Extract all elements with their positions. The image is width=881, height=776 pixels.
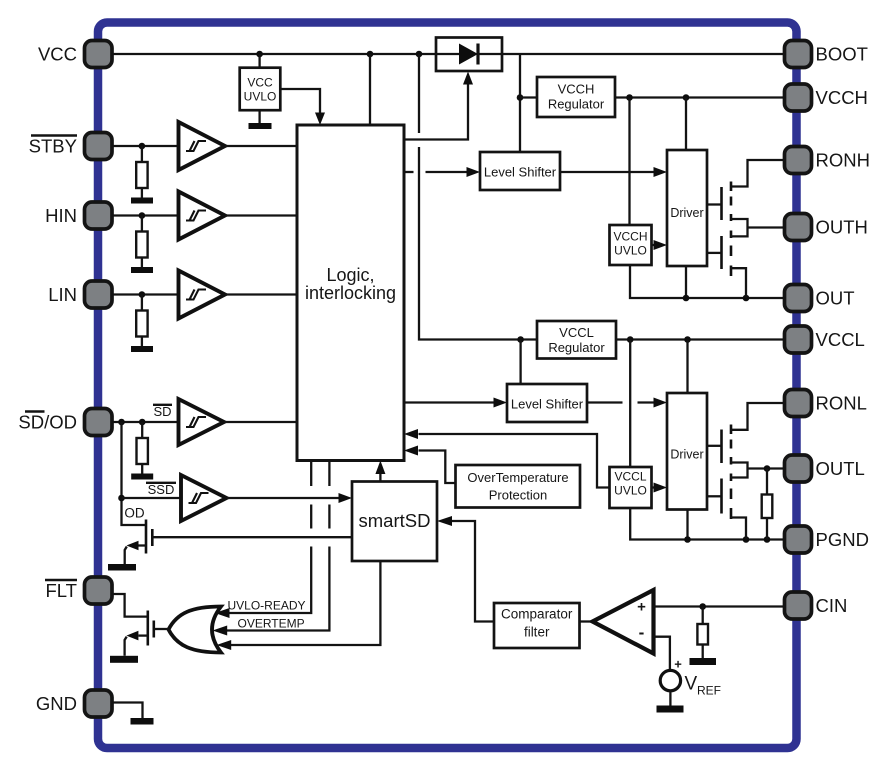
label SSD (active low): [146, 482, 176, 497]
node VCCH/driver tap: [683, 94, 690, 101]
svg-text:interlocking: interlocking: [305, 283, 396, 303]
svg-text:UVLO-READY: UVLO-READY: [228, 599, 306, 613]
wire logic OVERTEMP to OR gate (dashed hops, arrow): [213, 461, 330, 636]
label OVERTEMP: [238, 617, 305, 631]
wire VCC rail: [112, 53, 436, 55]
pin HIN: [45, 202, 112, 229]
wire VCCH UVLO to driver (arrow): [652, 240, 668, 250]
wire OUTL: [748, 467, 785, 469]
svg-text:VCC: VCC: [38, 44, 77, 65]
svg-text:PGND: PGND: [816, 529, 869, 550]
pin FLT (active low): [45, 577, 112, 604]
node LIN pulldown tap: [139, 291, 146, 298]
svg-text:VCCH: VCCH: [558, 82, 595, 97]
resistor HIN pulldown: [136, 216, 147, 268]
block Driver (high side): [667, 150, 707, 266]
node SD pulldown tap: [139, 419, 146, 426]
wire LIN buffer to logic: [225, 293, 297, 295]
svg-text:HIN: HIN: [45, 205, 77, 226]
wire smartSD to OD fet gate: [152, 536, 352, 538]
block VCCH UVLO: [610, 225, 652, 265]
node driver/PGND: [684, 536, 691, 543]
wire HIN input: [112, 214, 179, 216]
svg-text:VCCL: VCCL: [559, 325, 594, 340]
wire to VCCH regulator: [520, 96, 537, 98]
label SD (active low): [153, 404, 172, 419]
pin OUTH: [785, 214, 868, 241]
node STBY pulldown tap: [139, 143, 146, 150]
block smartSD: [352, 482, 437, 562]
svg-text:smartSD: smartSD: [359, 510, 431, 531]
svg-text:-: -: [639, 623, 645, 642]
block Driver (low side): [667, 393, 707, 510]
pin RONH: [785, 147, 870, 174]
schmitt buffer U4 (SD): [179, 399, 225, 445]
svg-text:Protection: Protection: [489, 488, 548, 503]
node fet-source/PGND: [743, 536, 750, 543]
wire logic UVLO-READY to OR gate (dashed hops, arrow): [215, 461, 311, 619]
svg-text:OverTemperature: OverTemperature: [467, 470, 568, 485]
svg-text:UVLO: UVLO: [614, 484, 647, 498]
wire VCCL rail: [616, 338, 785, 340]
svg-text:CIN: CIN: [816, 595, 848, 616]
pin CIN: [785, 592, 848, 619]
wire RONH to fet drain: [731, 160, 785, 187]
wire VCCL UVLO status to logic (arrow): [404, 429, 610, 488]
wire VCC down to VCCL regulator (with hop gap): [419, 54, 537, 340]
wire VCCL branch to lower level shifter: [519, 340, 521, 385]
svg-text:REF: REF: [697, 684, 721, 698]
svg-text:UVLO: UVLO: [244, 90, 277, 104]
label VREF: [685, 674, 722, 698]
block Level Shifter (high side): [480, 152, 560, 190]
wire overtemp status to logic (arrow): [404, 446, 456, 484]
svg-text:+: +: [637, 599, 646, 616]
pin VCCH: [785, 84, 868, 111]
pin RONL: [785, 390, 867, 417]
svg-text:STBY: STBY: [29, 136, 77, 157]
wire BOOT branch down to VCCH regulator / level shifter: [519, 54, 521, 152]
pin PGND: [785, 526, 869, 553]
transistor Q1 (high side sink fet): [707, 182, 748, 299]
wire VCC to VCC UVLO: [258, 54, 260, 68]
node VCC/VCCL-reg tap: [416, 51, 423, 58]
wire SD/OD input: [112, 421, 179, 423]
svg-text:Regulator: Regulator: [548, 97, 605, 112]
resistor LIN pulldown: [136, 295, 147, 347]
node VCCH regulator input: [517, 94, 524, 101]
node VCCH/UVLO tap: [626, 94, 633, 101]
block OverTemperature Protection: [456, 465, 581, 508]
ground under LIN resistor: [131, 346, 153, 352]
pin VCC: [38, 41, 112, 68]
node HIN pulldown tap: [139, 212, 146, 219]
node VCCL/UVLO tap: [627, 336, 634, 343]
wire FLT pin to fet drain: [112, 594, 148, 617]
schmitt buffer U3 (LIN): [179, 271, 226, 319]
wire lower level shifter to driver (arrow, hop over vertical): [587, 398, 667, 408]
resistor OUTL-PGND: [762, 469, 773, 540]
source VREF: [660, 657, 682, 706]
svg-text:V: V: [685, 674, 698, 695]
svg-text:Regulator: Regulator: [548, 340, 605, 355]
svg-text:GND: GND: [36, 693, 77, 714]
svg-text:Driver: Driver: [670, 448, 703, 462]
wire STBY input: [112, 145, 179, 147]
block VCCL Regulator: [537, 321, 616, 359]
svg-text:RONH: RONH: [816, 150, 870, 171]
ground under STBY resistor: [131, 198, 153, 204]
pin LIN: [48, 281, 112, 308]
wire VCC UVLO output to logic (arrow down): [280, 89, 325, 125]
wire VCCH to driver top: [685, 98, 687, 151]
wire smartSD to OR gate (arrow): [217, 561, 381, 650]
diode D1 bootstrap block: [436, 38, 502, 72]
wire SD buffer to logic: [224, 421, 297, 423]
wire smartSD to logic (arrow up): [375, 461, 385, 482]
pin BOOT: [785, 41, 868, 68]
or-gate U6 (fault OR, mirrored): [169, 607, 222, 653]
wire OR gate output to FLT fet gate: [154, 628, 169, 630]
wire VCCH to VCCH UVLO: [628, 98, 630, 226]
wire logic to lower level shifter (arrow): [404, 398, 507, 408]
svg-text:VCCL: VCCL: [816, 329, 865, 350]
svg-text:VCCH: VCCH: [816, 87, 868, 108]
svg-text:BOOT: BOOT: [816, 44, 868, 65]
svg-text:RONL: RONL: [816, 393, 867, 414]
wire VCCL UVLO bottom to PGND rail: [630, 508, 784, 540]
node OUTL/resistor tap: [764, 465, 771, 472]
label OD: [124, 506, 145, 521]
block VCCH Regulator: [537, 77, 615, 117]
svg-text:SD: SD: [153, 404, 171, 419]
svg-text:VCCH: VCCH: [613, 230, 647, 244]
svg-text:LIN: LIN: [48, 284, 77, 305]
ground under VREF: [657, 706, 684, 713]
block VCC UVLO: [240, 68, 281, 111]
wire VCCH UVLO bottom to OUT rail: [630, 265, 785, 298]
wire VCCL to lower driver top: [686, 340, 688, 394]
wire diode to BOOT: [502, 53, 785, 55]
pin STBY (active low): [29, 133, 112, 160]
wire SSD buffer to smartSD (arrow): [227, 493, 353, 503]
pin OUTL: [785, 455, 865, 482]
svg-text:Logic,: Logic,: [326, 265, 374, 285]
svg-text:Driver: Driver: [670, 206, 703, 220]
ground under VCC UVLO: [249, 110, 272, 129]
block VCCL UVLO: [610, 467, 652, 508]
wire driver bottom to OUT rail: [685, 266, 687, 298]
wire HIN buffer to logic: [225, 214, 297, 216]
ground under HIN resistor: [131, 267, 153, 273]
wire VCCH rail: [615, 96, 785, 98]
node SSD tap: [118, 495, 125, 502]
resistor SD pulldown: [137, 422, 148, 474]
wire comparator to filter: [580, 620, 595, 622]
node SD/OD branch: [118, 419, 125, 426]
schmitt buffer U2 (HIN): [179, 192, 226, 240]
pin VCCL: [785, 326, 865, 353]
pin OUT: [785, 285, 855, 312]
ground under FLT fet: [110, 656, 138, 663]
svg-text:Level Shifter: Level Shifter: [484, 165, 557, 180]
resistor CIN pulldown: [697, 607, 708, 659]
pin SD/OD (SD active low): [18, 409, 112, 436]
node driver/OUT: [683, 295, 690, 302]
svg-text:OVERTEMP: OVERTEMP: [238, 617, 305, 631]
svg-text:VCCL: VCCL: [614, 470, 646, 484]
node VCCL/driver tap: [684, 336, 691, 343]
ground under OD fet: [108, 564, 136, 571]
wire to SSD buffer: [122, 497, 182, 499]
svg-text:VCC: VCC: [247, 76, 273, 90]
wire SD/OD down branch to SSD and OD fet: [122, 422, 147, 525]
svg-text:Comparator: Comparator: [501, 607, 573, 622]
wire CIN to comparator + input: [654, 605, 785, 607]
wire comparator - input to VREF: [654, 637, 670, 671]
IC boundary (chip outline): [98, 23, 797, 749]
svg-text:+: +: [674, 657, 682, 672]
resistor STBY pulldown: [136, 146, 147, 198]
svg-text:SD/OD: SD/OD: [18, 412, 77, 433]
node CIN filter tap: [699, 603, 706, 610]
node VCC/logic tap: [367, 51, 374, 58]
node VCC/UVLO tap: [256, 51, 263, 58]
wire VCCL to VCCL UVLO: [629, 340, 631, 468]
wire comparator filter to smartSD (arrow): [437, 516, 494, 622]
schmitt buffer U1 (STBY): [179, 122, 226, 170]
svg-text:Level Shifter: Level Shifter: [511, 397, 584, 412]
wire lower driver bottom to PGND rail: [686, 510, 688, 540]
transistor Q2 (low side sink fet): [707, 425, 748, 540]
wire logic to upper level shifter (arrow, hop over vertical): [404, 167, 480, 177]
node VCCL regulator input: [517, 336, 524, 343]
label UVLO-READY: [228, 599, 306, 613]
node fet-source/OUT: [743, 295, 750, 302]
wire VCC to logic top: [369, 54, 371, 125]
svg-text:OUTL: OUTL: [816, 458, 865, 479]
svg-text:filter: filter: [524, 625, 550, 640]
svg-text:OUT: OUT: [816, 288, 855, 309]
svg-text:OD: OD: [124, 506, 145, 521]
svg-text:UVLO: UVLO: [614, 244, 647, 258]
op-amp U7 (CIN comparator): [593, 590, 654, 654]
block Logic, interlocking: [297, 125, 404, 461]
wire LIN input: [112, 293, 179, 295]
ground under SD resistor: [131, 474, 153, 480]
wire VCCL UVLO to driver (arrow): [652, 483, 668, 493]
node resistor/PGND: [764, 536, 771, 543]
block Level Shifter (low side): [507, 384, 587, 422]
wire OUTH: [748, 226, 785, 228]
schmitt buffer U5 (SSD): [181, 475, 227, 521]
wire level shifter to driver (arrow): [560, 167, 667, 177]
svg-text:SSD: SSD: [148, 482, 175, 497]
pin GND: [36, 690, 112, 717]
svg-text:FLT: FLT: [45, 580, 77, 601]
wire STBY buffer to logic: [225, 145, 297, 147]
wire logic to bootstrap diode control (arrow up): [404, 72, 473, 140]
ground at GND pin: [112, 703, 154, 725]
svg-text:OUTH: OUTH: [816, 217, 868, 238]
block Comparator filter: [494, 603, 580, 648]
wire RONL to fet drain: [731, 403, 785, 430]
ground under CIN resistor: [690, 658, 717, 665]
transistor Q3 (OD open drain fet): [125, 520, 153, 565]
transistor Q4 (FLT open drain fet): [125, 611, 154, 656]
